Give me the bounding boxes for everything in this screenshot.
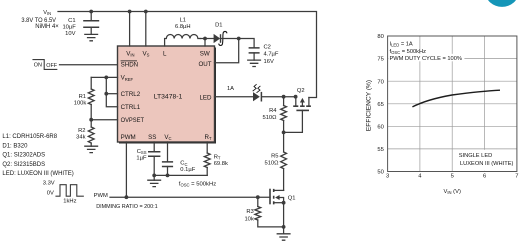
component list text (2, 134, 73, 177)
wire Q1 source down (283, 203, 285, 227)
node VREF junction (104, 76, 108, 80)
svg-text:NiMH 4×: NiMH 4× (35, 24, 59, 30)
switch ON/OFF (33, 60, 58, 70)
node VS pin junction (144, 10, 148, 14)
svg-text:80: 80 (377, 34, 383, 40)
wire VS pin (145, 12, 147, 47)
svg-text:R2: R2 (78, 128, 85, 134)
node R4/R5/gate junction (282, 131, 286, 135)
svg-text:10V: 10V (65, 31, 75, 37)
svg-text:100k: 100k (74, 100, 87, 106)
resistor R4 (262, 97, 286, 133)
svg-text:L1: L1 (180, 18, 186, 24)
svg-text:PWM: PWM (121, 134, 136, 141)
svg-text:3.8V TO 6.5V: 3.8V TO 6.5V (21, 18, 56, 24)
capacitor C2 (249, 45, 279, 66)
svg-text:SW: SW (200, 50, 210, 57)
svg-text:16V: 16V (264, 59, 274, 65)
resistor R2 (76, 120, 94, 147)
current probe squiggle D1 (219, 31, 227, 45)
node R3 junction (256, 195, 260, 199)
ground C1 (84, 34, 98, 40)
graph annotations (390, 41, 462, 62)
node ground junction (282, 225, 286, 229)
node R4 top junction (282, 95, 286, 99)
svg-text:PWM DUTY CYCLE = 100%: PWM DUTY CYCLE = 100% (390, 56, 462, 62)
resistor RT (204, 142, 228, 175)
capacitor C1 (62, 12, 99, 38)
wire OVPSET (91, 119, 117, 121)
svg-text:ON: ON (34, 62, 42, 68)
graph gridlines (388, 36, 517, 172)
svg-text:D1: B320: D1: B320 (2, 143, 28, 149)
svg-text:69.8k: 69.8k (214, 161, 228, 167)
svg-text:10k: 10k (244, 217, 253, 223)
wire VIN pin (129, 12, 131, 47)
PWM waveform symbol (56, 185, 83, 197)
svg-text:fOSC = 500kHz: fOSC = 500kHz (390, 49, 427, 55)
resistor R1 (74, 77, 94, 119)
svg-text:65: 65 (377, 102, 383, 108)
wire OUT pin loop (215, 39, 239, 63)
transistor Q1 (NMOS) (270, 189, 296, 205)
graph annotation mask (388, 54, 464, 62)
svg-text:VIN: VIN (43, 10, 51, 16)
graph legend text (459, 153, 514, 167)
svg-text:Q2: Q2 (297, 88, 305, 94)
graph efficiency curve (412, 90, 500, 107)
svg-text:CSS: CSS (137, 149, 147, 155)
graph x-axis labels (386, 174, 519, 180)
svg-text:OVPSET: OVPSET (121, 117, 145, 124)
node VC junction (166, 174, 170, 178)
svg-text:SHDN: SHDN (121, 62, 139, 69)
wire bottom tie (154, 174, 207, 176)
svg-text:5: 5 (451, 174, 454, 180)
svg-text:Q1: SI2302ADS: Q1: SI2302ADS (2, 153, 45, 159)
svg-text:CTRL1: CTRL1 (121, 104, 141, 111)
capacitor CSS (136, 149, 160, 176)
svg-text:OUT: OUT (198, 61, 211, 68)
svg-text:510Ω: 510Ω (262, 115, 277, 121)
svg-text:6: 6 (483, 174, 486, 180)
svg-text:R4: R4 (269, 108, 277, 114)
svg-text:10µF: 10µF (62, 25, 76, 31)
wire D1 to C2 node (221, 39, 254, 48)
resistor R3 (244, 197, 283, 227)
wire LED pin (215, 96, 254, 98)
node CTRL2 junction (104, 92, 108, 96)
svg-text:75: 75 (377, 57, 383, 63)
svg-text:70: 70 (377, 79, 383, 85)
svg-text:L1: CDRH105R-6R8: L1: CDRH105R-6R8 (2, 134, 57, 140)
svg-text:7: 7 (515, 174, 518, 180)
svg-text:Q2: SI2315BDS: Q2: SI2315BDS (2, 162, 45, 168)
svg-text:LUXEON III (WHITE): LUXEON III (WHITE) (460, 161, 514, 167)
svg-text:PWM: PWM (94, 193, 108, 199)
svg-text:SINGLE LED: SINGLE LED (459, 153, 493, 159)
wire PWM rail (110, 196, 270, 198)
svg-text:VIN (V): VIN (V) (443, 189, 460, 195)
wire LED cathode (262, 96, 296, 98)
inductor L1 (165, 18, 200, 46)
svg-text:510Ω: 510Ω (264, 160, 279, 166)
node SS/CC ground junction (152, 174, 156, 178)
wire CTRL2 (106, 93, 117, 95)
svg-text:Q1: Q1 (288, 195, 296, 201)
wire VC pin (167, 142, 169, 162)
svg-text:3: 3 (386, 174, 389, 180)
node Q2 source junction (294, 95, 298, 99)
svg-text:0.1µF: 0.1µF (180, 167, 195, 173)
svg-text:1µF: 1µF (136, 155, 147, 161)
svg-text:R1: R1 (79, 94, 86, 100)
svg-text:fOSC = 500kHz: fOSC = 500kHz (179, 181, 216, 187)
svg-text:LED: LUXEON III (WHITE): LED: LUXEON III (WHITE) (2, 171, 73, 177)
ground Q1 (283, 227, 285, 234)
node D1/C2/OUT junction (237, 37, 241, 41)
svg-text:EFFICIENCY (%): EFFICIENCY (%) (366, 80, 373, 131)
node OVPSET junction (89, 118, 93, 122)
ground R2 (84, 146, 98, 152)
graph y-axis labels (377, 34, 383, 176)
svg-text:34k: 34k (76, 134, 85, 140)
node PWM junction (125, 195, 129, 199)
svg-text:4.7µF: 4.7µF (264, 52, 279, 58)
svg-text:C1: C1 (68, 18, 75, 24)
svg-text:LT3478-1: LT3478-1 (154, 94, 183, 101)
svg-text:R3: R3 (246, 209, 253, 215)
svg-text:R5: R5 (271, 154, 278, 160)
resistor R5 (264, 132, 286, 190)
node Q1 source junction (282, 201, 286, 205)
svg-text:1kHz: 1kHz (63, 199, 76, 205)
svg-text:55: 55 (377, 147, 383, 153)
ground C2 (247, 60, 261, 66)
wire PWM pin (125, 142, 127, 197)
wire VREF (91, 76, 117, 78)
wire L1 to D1 (200, 38, 213, 40)
svg-text:RT: RT (214, 154, 221, 160)
svg-text:60: 60 (377, 124, 383, 130)
graph frame (388, 36, 517, 172)
diode D1 (214, 22, 223, 43)
transistor Q2 (PMOS) (293, 88, 311, 110)
svg-text:1A: 1A (227, 86, 234, 92)
svg-text:LED: LED (199, 95, 212, 102)
svg-text:0V: 0V (47, 191, 54, 197)
wire VIN rail to Q2 (58, 12, 317, 98)
node VIN pin junction (128, 10, 132, 14)
teal corner badge (486, 0, 519, 7)
svg-text:C2: C2 (264, 45, 271, 51)
svg-text:DIMMING RATIO = 200:1: DIMMING RATIO = 200:1 (96, 204, 158, 210)
node C1 junction (89, 10, 93, 14)
node VIN input label (21, 10, 59, 30)
svg-text:OFF: OFF (46, 63, 57, 69)
capacitor CC (162, 161, 196, 176)
wire SS pin (153, 142, 155, 152)
svg-text:50: 50 (377, 170, 383, 176)
svg-text:6.8µH: 6.8µH (175, 24, 191, 30)
pin SHDN (121, 61, 139, 69)
node SW junction (203, 37, 207, 41)
svg-text:CC: CC (180, 161, 187, 167)
svg-text:3.3V: 3.3V (43, 181, 55, 187)
svg-text:L: L (163, 50, 167, 57)
wire VREF-CTRL2-CTRL1 tie (106, 77, 117, 106)
wire SHDN (60, 64, 118, 66)
ground CSS (153, 175, 155, 180)
op-amp U1 LT3478-1 IC body (118, 46, 217, 144)
svg-text:D1: D1 (215, 22, 222, 28)
svg-text:CTRL2: CTRL2 (121, 91, 141, 98)
svg-text:ILED = 1A: ILED = 1A (390, 41, 413, 47)
wire Q2 gate (284, 110, 303, 132)
svg-text:SS: SS (148, 134, 156, 141)
wire SW pin (204, 39, 206, 47)
LED D2 (253, 84, 262, 101)
